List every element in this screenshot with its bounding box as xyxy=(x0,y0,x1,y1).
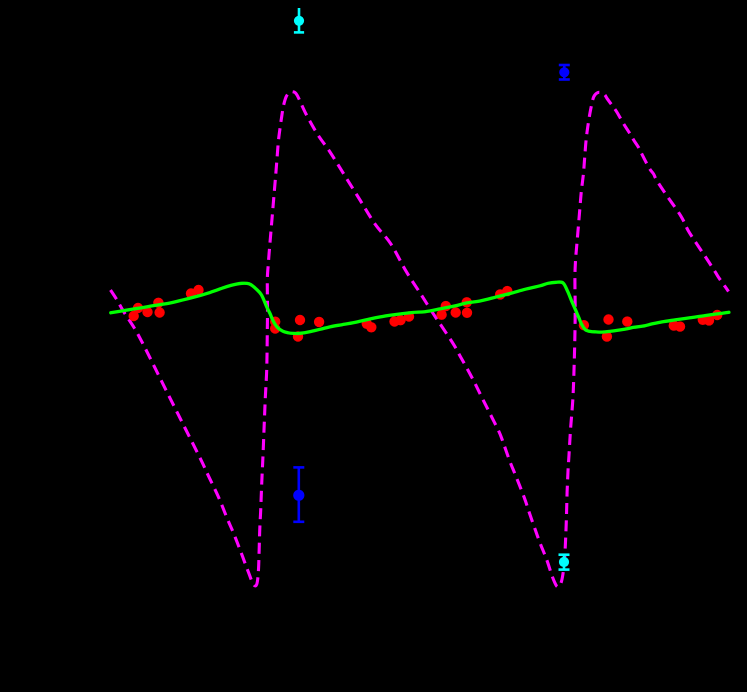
cyan point with error bar (bottom right) xyxy=(559,555,570,570)
red data points xyxy=(129,285,723,342)
blue point with error bar (top right) xyxy=(559,65,570,80)
cyan point with error bar (top) xyxy=(294,8,304,32)
blue point with error bar (bottom left) xyxy=(293,467,304,521)
magenta dashed radial-velocity model curve xyxy=(111,92,729,587)
green solid model curve xyxy=(111,282,729,334)
